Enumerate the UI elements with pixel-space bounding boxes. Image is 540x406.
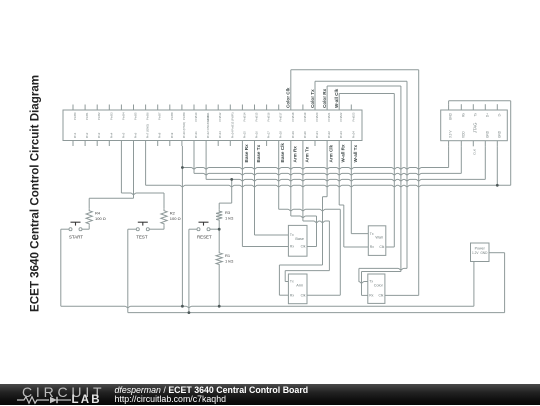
svg-text:PinB19: PinB19 xyxy=(303,112,307,121)
svg-text:Clk: Clk xyxy=(301,293,306,297)
svg-text:VDD: VDD xyxy=(461,131,465,138)
svg-text:Base Tx: Base Tx xyxy=(256,144,261,162)
svg-text:PinB16: PinB16 xyxy=(267,112,271,121)
svg-text:GND: GND xyxy=(497,130,501,138)
svg-text:Arm Rx: Arm Rx xyxy=(292,146,297,163)
svg-text:CLK: CLK xyxy=(473,149,477,155)
svg-text:1.2V GND: 1.2V GND xyxy=(472,251,488,255)
svg-text:PinB0: PinB0 xyxy=(73,112,77,120)
svg-text:Tx: Tx xyxy=(290,233,294,237)
svg-text:R3: R3 xyxy=(225,210,231,215)
svg-text:Pin10 (PWR): Pin10 (PWR) xyxy=(182,122,186,138)
svg-text:D-: D- xyxy=(497,113,501,116)
svg-text:Arm: Arm xyxy=(296,284,303,288)
svg-text:R4: R4 xyxy=(95,211,101,216)
svg-text:PinB15: PinB15 xyxy=(255,112,259,121)
svg-text:Pin22: Pin22 xyxy=(327,131,331,139)
svg-text:D+: D+ xyxy=(485,113,489,117)
svg-text:PinB8: PinB8 xyxy=(170,112,174,120)
svg-text:PinB9: PinB9 xyxy=(182,112,186,120)
svg-text:Pin12 OSC/CLKIN: Pin12 OSC/CLKIN xyxy=(206,115,210,138)
svg-text:PinB6: PinB6 xyxy=(146,112,150,120)
svg-text:Pin15: Pin15 xyxy=(242,131,246,139)
svg-text:Pin23: Pin23 xyxy=(339,131,343,139)
svg-text:Pin13: Pin13 xyxy=(218,131,222,139)
svg-text:JTAG: JTAG xyxy=(472,123,477,133)
svg-text:PinB21: PinB21 xyxy=(327,112,331,121)
svg-text:Color Rx: Color Rx xyxy=(322,88,327,108)
svg-text:Arm Tx: Arm Tx xyxy=(304,146,309,162)
svg-text:100 Ω: 100 Ω xyxy=(95,216,106,221)
svg-text:Clk: Clk xyxy=(301,245,306,249)
svg-text:Pin6: Pin6 xyxy=(134,132,138,138)
svg-text:Pin8: Pin8 xyxy=(158,132,162,138)
svg-text:Pin21: Pin21 xyxy=(315,131,319,139)
svg-text:100 Ω: 100 Ω xyxy=(170,216,181,221)
svg-text:Tx: Tx xyxy=(369,280,373,284)
svg-text:PinB5: PinB5 xyxy=(134,112,138,120)
svg-text:Pin7 (GND): Pin7 (GND) xyxy=(146,124,150,139)
svg-text:PinB14: PinB14 xyxy=(242,112,246,121)
svg-text:PinB23: PinB23 xyxy=(351,112,355,121)
svg-text:Clk: Clk xyxy=(378,294,383,298)
svg-text:TEST: TEST xyxy=(136,235,148,240)
svg-text:Color Clk: Color Clk xyxy=(286,87,291,108)
svg-text:Rx: Rx xyxy=(369,294,373,298)
svg-text:Pin19: Pin19 xyxy=(291,131,295,139)
svg-text:1 kΩ: 1 kΩ xyxy=(225,259,233,264)
svg-text:PinB10: PinB10 xyxy=(194,112,198,121)
svg-text:Pin11: Pin11 xyxy=(194,131,198,138)
svg-text:PinB12: PinB12 xyxy=(218,112,222,121)
svg-text:PinB4: PinB4 xyxy=(121,112,125,120)
svg-text:W-all Rx: W-all Rx xyxy=(341,144,346,162)
svg-text:Pin1: Pin1 xyxy=(73,132,77,138)
svg-text:Base: Base xyxy=(295,237,304,241)
svg-text:W-all Clk: W-all Clk xyxy=(334,88,339,108)
svg-text:PinB20: PinB20 xyxy=(315,112,319,121)
svg-text:PinB13 (PWR): PinB13 (PWR) xyxy=(230,112,234,130)
svg-text:GND: GND xyxy=(449,112,453,120)
svg-text:Pin9: Pin9 xyxy=(170,132,174,138)
svg-text:Base Clk: Base Clk xyxy=(280,143,285,163)
svg-text:PinB7: PinB7 xyxy=(158,112,162,120)
svg-text:PinB2: PinB2 xyxy=(97,112,101,120)
svg-text:R1: R1 xyxy=(225,253,231,258)
svg-text:Pin3: Pin3 xyxy=(97,132,101,138)
svg-text:PinB22: PinB22 xyxy=(339,112,343,121)
svg-text:Power: Power xyxy=(475,246,486,250)
svg-text:Clk: Clk xyxy=(379,245,384,249)
svg-text:Tx: Tx xyxy=(290,280,294,284)
svg-text:R2: R2 xyxy=(170,211,176,216)
svg-text:Rx: Rx xyxy=(370,245,374,249)
svg-text:Tx: Tx xyxy=(370,232,374,236)
svg-text:PinB18: PinB18 xyxy=(291,112,295,121)
svg-text:PinB17: PinB17 xyxy=(279,112,283,121)
svg-text:RESET: RESET xyxy=(197,235,212,240)
svg-text:Pin17: Pin17 xyxy=(267,131,271,139)
svg-text:Rx: Rx xyxy=(461,113,465,117)
svg-text:Rx: Rx xyxy=(290,293,294,297)
svg-text:PinB3: PinB3 xyxy=(109,112,113,120)
svg-text:Base Rx: Base Rx xyxy=(244,144,249,163)
svg-text:Color: Color xyxy=(374,284,384,288)
svg-text:Wall: Wall xyxy=(375,236,382,240)
svg-text:1 kΩ: 1 kΩ xyxy=(225,216,233,221)
svg-text:3.3 V: 3.3 V xyxy=(449,130,453,138)
svg-text:Pin2: Pin2 xyxy=(85,132,89,138)
svg-text:Tx: Tx xyxy=(473,113,477,117)
svg-text:Rx: Rx xyxy=(290,245,294,249)
svg-text:PinB1: PinB1 xyxy=(85,112,89,120)
svg-text:W-all Tx: W-all Tx xyxy=(353,145,358,163)
svg-text:Pin18: Pin18 xyxy=(279,131,283,139)
svg-text:Pin20: Pin20 xyxy=(303,131,307,139)
svg-text:Pin5: Pin5 xyxy=(121,132,125,138)
svg-text:GND: GND xyxy=(485,130,489,138)
svg-text:Color Tx: Color Tx xyxy=(310,89,315,108)
svg-text:START: START xyxy=(69,235,83,240)
svg-text:ECET 3640 Central Control Circ: ECET 3640 Central Control Circuit Diagra… xyxy=(29,75,42,312)
svg-text:Pin14: Pin14 xyxy=(230,131,234,139)
svg-text:Pin4: Pin4 xyxy=(109,132,113,138)
svg-text:Pin16: Pin16 xyxy=(255,131,259,139)
svg-text:Pin24: Pin24 xyxy=(351,131,355,139)
svg-text:Arm Clk: Arm Clk xyxy=(329,144,334,162)
